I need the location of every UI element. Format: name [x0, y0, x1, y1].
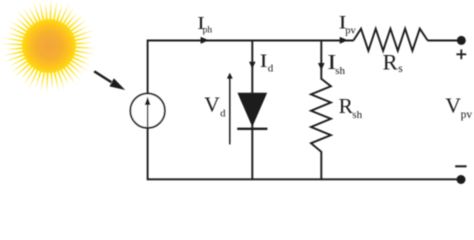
- svg-text:pv: pv: [345, 26, 356, 37]
- current source I_ph: [130, 94, 164, 128]
- svg-text:V: V: [445, 93, 461, 117]
- arrowhead I_sh on shunt branch: [318, 63, 325, 70]
- wire: shunt branch upper: [320, 41, 322, 80]
- wire: top rail right of Rs: [428, 40, 462, 42]
- wire: bottom rail: [148, 178, 461, 180]
- svg-text:R: R: [383, 50, 398, 75]
- resistor Rs zigzag: [354, 29, 428, 51]
- terminal dot +: [457, 36, 466, 45]
- resistor Rsh zigzag: [311, 79, 331, 152]
- svg-text:pv: pv: [461, 109, 473, 121]
- wire: left branch upper: [147, 40, 149, 94]
- arrowhead I_ph on top rail: [201, 37, 209, 44]
- wire: top rail: [148, 40, 354, 42]
- irradiance arrow: [93, 70, 125, 90]
- sun rays: [1, 0, 98, 94]
- svg-text:V: V: [204, 92, 220, 116]
- wire: left branch lower: [147, 128, 149, 180]
- arrowhead I_pv on top rail: [340, 37, 348, 44]
- svg-text:d: d: [220, 109, 226, 120]
- svg-text:s: s: [398, 63, 403, 75]
- sun disc: [22, 19, 76, 73]
- arrowhead I_d on diode branch: [249, 62, 256, 69]
- minus sign: [455, 165, 466, 167]
- svg-text:d: d: [268, 63, 274, 75]
- svg-text:sh: sh: [352, 109, 362, 121]
- diode D: [238, 93, 266, 125]
- svg-text:sh: sh: [335, 65, 345, 77]
- plus sign: [456, 53, 466, 55]
- terminal dot -: [457, 175, 466, 184]
- svg-text:ph: ph: [203, 24, 213, 35]
- wire: shunt branch lower: [320, 151, 322, 179]
- wire: diode branch: [251, 41, 253, 180]
- svg-text:I: I: [260, 50, 268, 71]
- V_d arrow: [229, 77, 231, 145]
- svg-text:R: R: [339, 94, 354, 118]
